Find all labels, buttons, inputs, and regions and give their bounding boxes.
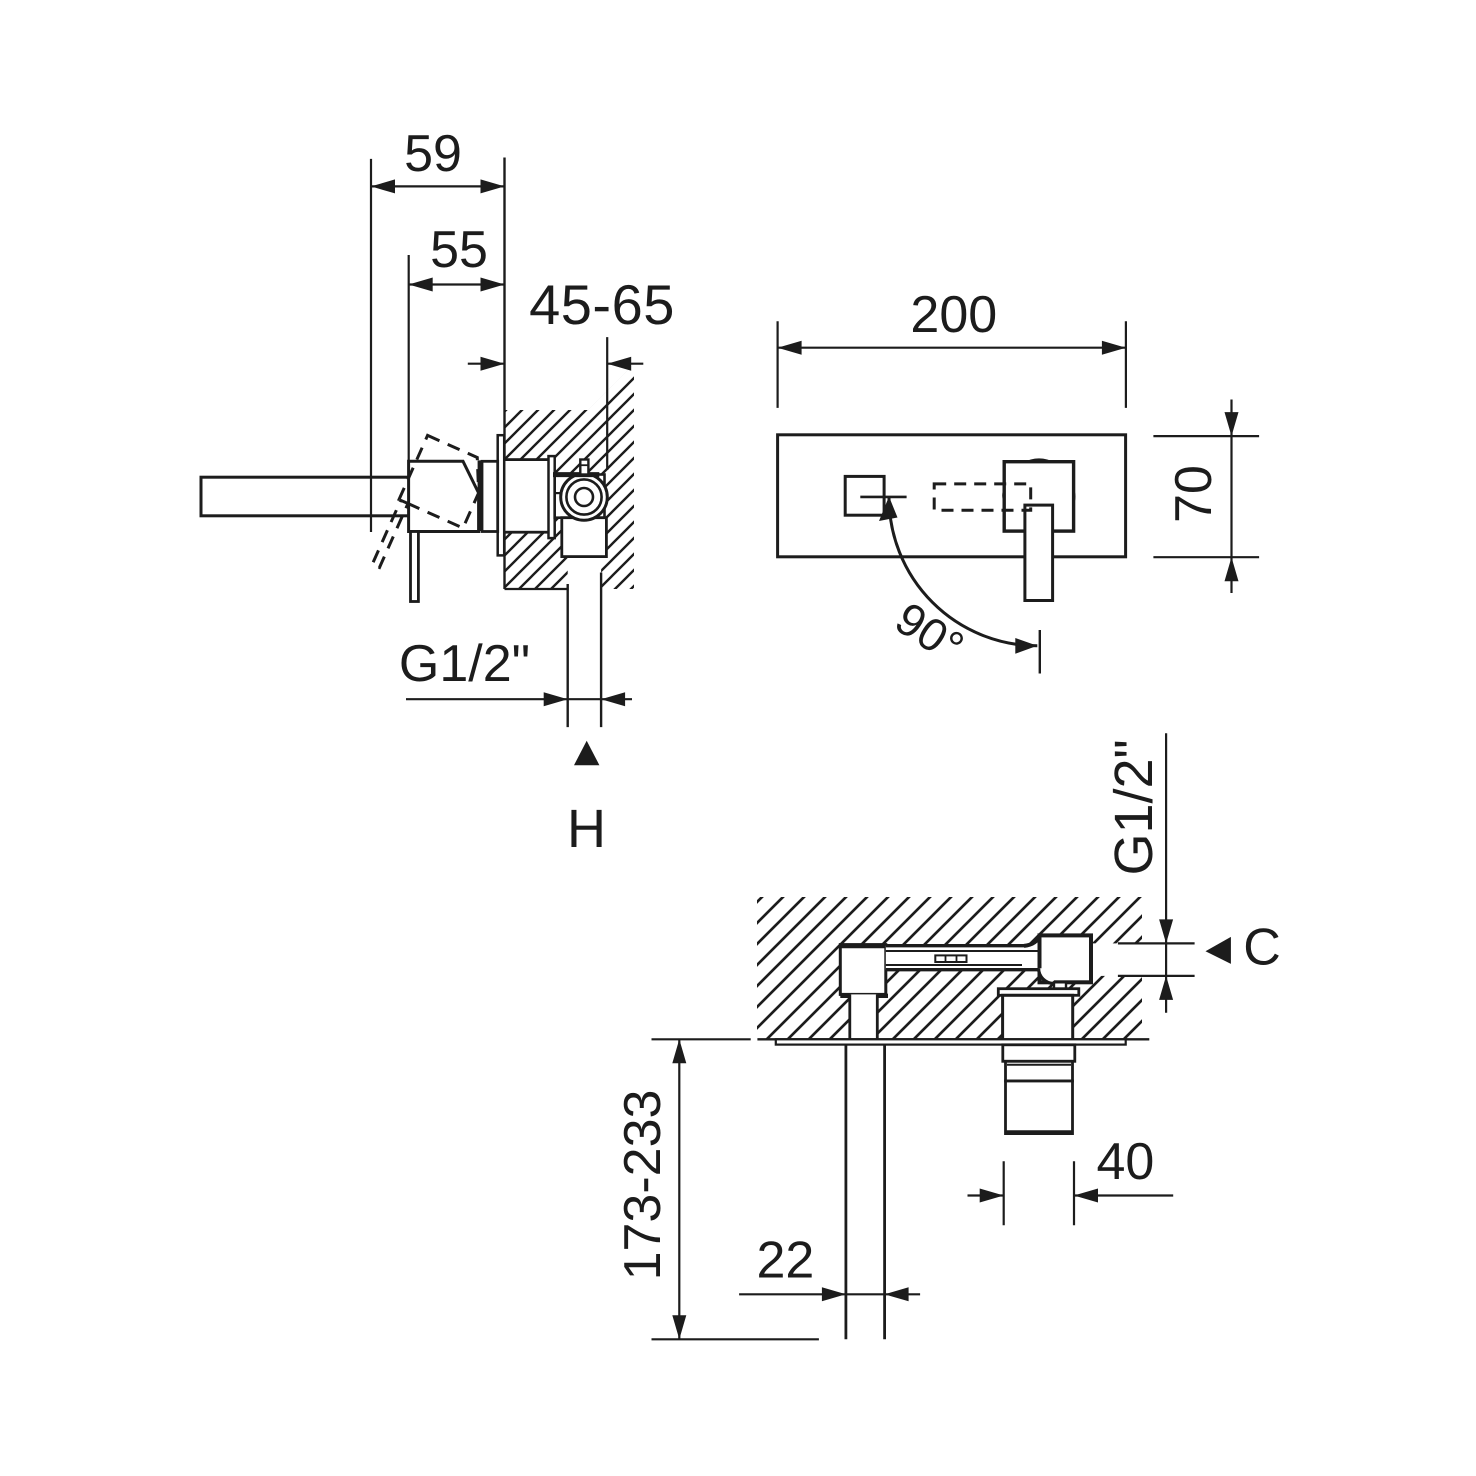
svg-text:22: 22 xyxy=(756,1232,814,1290)
svg-text:H: H xyxy=(567,799,606,859)
svg-text:59: 59 xyxy=(404,125,462,183)
svg-text:G1/2": G1/2" xyxy=(399,635,530,693)
svg-text:55: 55 xyxy=(430,221,488,279)
svg-text:173-233: 173-233 xyxy=(614,1090,672,1281)
svg-text:45-65: 45-65 xyxy=(529,273,675,336)
svg-text:G1/2": G1/2" xyxy=(1104,739,1164,875)
svg-text:C: C xyxy=(1243,919,1281,977)
svg-text:70: 70 xyxy=(1165,465,1223,523)
svg-text:40: 40 xyxy=(1096,1133,1154,1191)
svg-text:200: 200 xyxy=(910,286,997,344)
